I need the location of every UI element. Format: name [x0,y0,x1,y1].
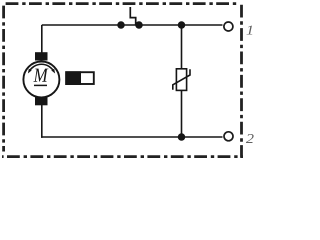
wire: motor top lead [41,25,43,53]
wire: bottom bus from motor to terminal 2 [41,136,223,138]
label terminal 2 (Liberation Serif Italic outline) [246,134,254,143]
terminal ring 2 [224,132,233,141]
junction: varistor bottom node [178,133,186,141]
motor M1 body circle [23,62,59,98]
permanent magnet [65,71,93,85]
terminal ring 1 [224,22,233,31]
junction: switch right [135,21,143,29]
motor M1 underline [34,84,47,86]
motor M1 [23,52,59,105]
switch S1 (stepped contact) [130,7,135,25]
motor M1 brush top [35,52,48,60]
wire: varistor bottom lead [181,90,183,137]
label terminal 1 (Liberation Serif Italic outline) [246,26,252,35]
wire: motor bottom lead [41,104,43,138]
junction: varistor top node [178,21,186,29]
wire: varistor top lead [181,25,183,69]
enclosure boundary (dash-dot frame) [2,2,243,158]
motor M1 rotation arrow (double-headed arc) [29,64,54,71]
varistor R1 [173,69,190,91]
wire: top bus from motor to terminal 1 [42,24,223,26]
junction: switch left [117,21,125,29]
motor M1 brush bottom [35,97,48,105]
motor M1 letter M (Liberation Serif Italic outline) [33,69,48,82]
